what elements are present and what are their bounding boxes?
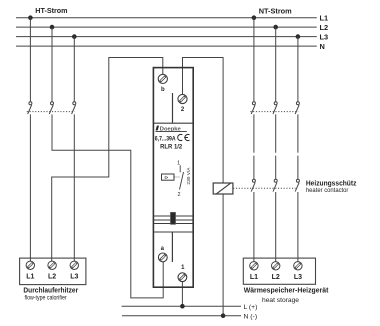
svg-text:I>: I>: [165, 175, 169, 180]
wire NT L2 to heat storage: [275, 192, 277, 262]
heater contactor contact 2: [273, 179, 277, 191]
heat storage terminal L1: [250, 262, 258, 282]
heater contactor coil K1: [213, 183, 233, 194]
relay separator above logo: [154, 122, 193, 124]
wire NT L2 middle: [275, 114, 277, 179]
relay contact blade: [180, 172, 184, 190]
relay internal divider (lower): [171, 232, 173, 262]
junction dot HT L2: [50, 25, 55, 30]
NT contactor contact 3: [295, 102, 299, 114]
bus line L3: [16, 36, 317, 38]
NT contactor contact 1: [251, 102, 255, 114]
supply line L(+): [122, 305, 241, 307]
relay mid separator 2: [154, 219, 193, 221]
svg-text:N (-): N (-): [244, 313, 258, 320]
svg-text:1: 1: [181, 265, 185, 271]
relay mid separator 1: [154, 215, 193, 217]
wire NT L2 drop: [275, 27, 277, 102]
flow-type calorifier box: [20, 258, 86, 285]
svg-text:6,7...39A: 6,7...39A: [155, 135, 176, 142]
relay terminal b: [158, 74, 167, 83]
svg-text:2: 2: [178, 192, 181, 198]
svg-text:L2: L2: [272, 274, 280, 281]
wire NT L3 to heat storage: [297, 192, 299, 262]
HT contactor linkage (dotted): [27, 111, 75, 113]
relay terminal 1: [178, 273, 187, 282]
svg-text:a: a: [161, 246, 165, 252]
junction dot NT L3: [296, 34, 301, 39]
wire HT L2 to relay terminal a: [52, 114, 163, 298]
svg-text:HT-Strom: HT-Strom: [35, 6, 68, 15]
relay internal divider (upper): [172, 93, 174, 123]
wire NT L1 drop: [253, 18, 255, 102]
svg-text:230 V/A: 230 V/A: [186, 167, 192, 185]
svg-text:L3: L3: [70, 274, 78, 281]
svg-text:2: 2: [181, 107, 185, 113]
junction dot on L(+): [180, 304, 185, 309]
heat storage terminal L2: [272, 262, 280, 282]
svg-text:L1: L1: [26, 274, 34, 281]
calorifier terminal L1: [26, 261, 34, 281]
svg-text:L3: L3: [320, 32, 329, 41]
bus line N: [16, 45, 317, 47]
wire HT L1 drop: [29, 18, 31, 102]
svg-text:L (+): L (+): [244, 304, 258, 311]
junction dot HT L1: [28, 15, 33, 20]
heater contactor contact 3: [295, 179, 299, 191]
svg-text:heater contactor: heater contactor: [306, 187, 349, 194]
svg-text:L2: L2: [320, 23, 329, 32]
wire relay terminal b to L2 out: [52, 58, 163, 262]
NT contactor linkage (dotted): [250, 111, 298, 113]
wire HT L2 drop: [51, 27, 53, 102]
relay contact fixed stub: [179, 165, 181, 172]
junction dot on N(-): [221, 313, 226, 318]
relay DIN clip: [171, 212, 176, 224]
svg-text:L1: L1: [250, 274, 258, 281]
wire HT L3 to calorifier: [73, 114, 75, 261]
heat storage terminal L3: [294, 262, 302, 282]
junction dot NT L1: [252, 15, 257, 20]
relay terminal a: [158, 253, 167, 262]
CE mark: [178, 134, 190, 140]
wire NT L1 to heat storage: [253, 192, 255, 262]
relay U1 RLR 1/2 outline: [153, 68, 193, 288]
bus line L1: [16, 17, 317, 19]
calorifier terminal L2: [48, 261, 56, 281]
heat storage box: [243, 258, 315, 284]
HT contactor contact 1: [28, 102, 32, 114]
calorifier terminal L3: [70, 261, 78, 281]
wire HT L1 to calorifier: [29, 114, 31, 261]
svg-text:L3: L3: [294, 274, 302, 281]
Doepke logo flag: [156, 126, 159, 131]
svg-text:heat storage: heat storage: [262, 297, 299, 304]
svg-text:L1: L1: [320, 13, 329, 22]
wire relay contact 1 to L(+): [181, 282, 183, 307]
relay mid separator 3: [154, 223, 193, 225]
wire NT L1 middle: [253, 114, 255, 179]
HT contactor contact 2: [49, 102, 53, 114]
relay mid separator 4: [154, 231, 193, 233]
svg-text:RLR 1/2: RLR 1/2: [160, 143, 182, 150]
relay coil to contact link (dotted): [175, 176, 180, 178]
wire NT L3 middle: [297, 114, 299, 179]
wire relay contact 2 to contactor coil: [183, 58, 224, 184]
Doepke logo underline: [156, 130, 187, 132]
svg-text:N: N: [320, 42, 325, 51]
wire HT L3 drop: [73, 37, 75, 102]
NT contactor contact 2: [273, 102, 277, 114]
wire NT L3 drop: [297, 37, 299, 102]
svg-text:1: 1: [177, 160, 180, 166]
svg-text:L2: L2: [48, 274, 56, 281]
svg-text:Wärmespeicher-Heizgerät: Wärmespeicher-Heizgerät: [244, 286, 329, 295]
svg-text:NT-Strom: NT-Strom: [259, 6, 292, 15]
relay current coil I>: [162, 174, 175, 180]
relay terminal 2: [178, 94, 187, 103]
svg-text:b: b: [161, 87, 165, 93]
junction dot HT L3: [72, 34, 77, 39]
heater contactor linkage (dotted): [233, 187, 295, 189]
supply line N(-): [122, 315, 241, 317]
junction dot NT L2: [273, 25, 278, 30]
svg-text:Durchlauferhitzer: Durchlauferhitzer: [23, 285, 78, 294]
wire contactor coil to N(-): [222, 194, 224, 316]
bus line L2: [16, 26, 317, 28]
HT contactor contact 3: [72, 102, 76, 114]
heater contactor contact 1: [251, 179, 255, 191]
svg-text:flow-type calorifier: flow-type calorifier: [25, 295, 67, 302]
